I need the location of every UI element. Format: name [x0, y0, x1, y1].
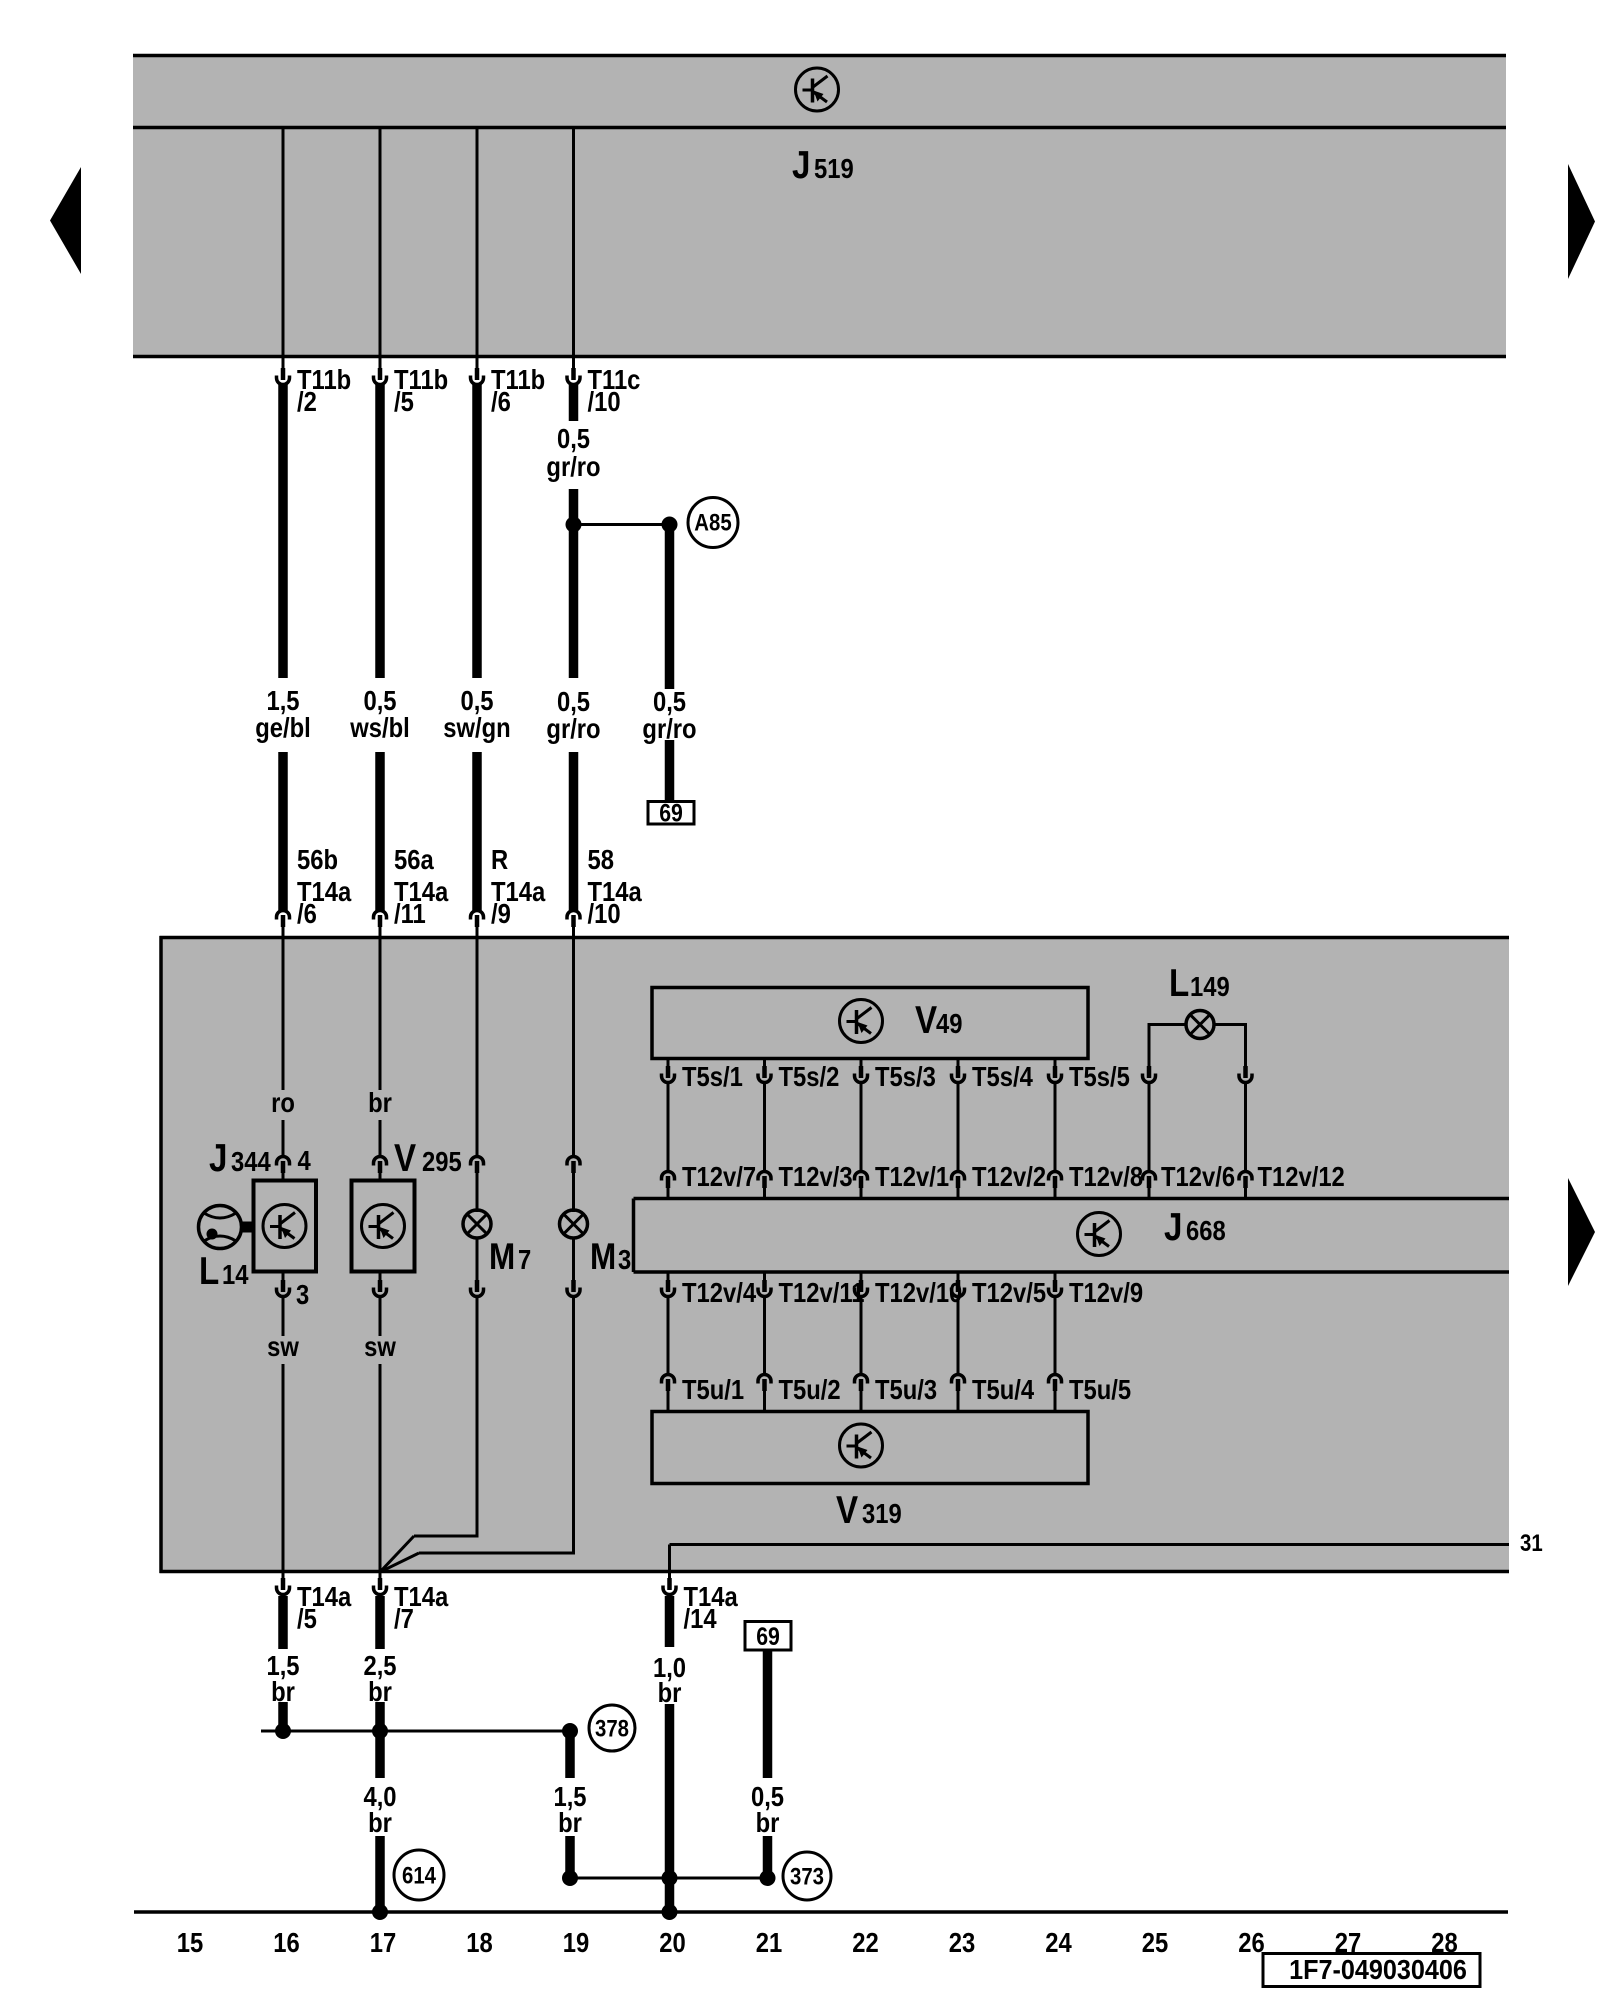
svg-text:L: L [199, 1248, 219, 1292]
svg-text:/14: /14 [684, 1602, 718, 1634]
svg-text:16: 16 [273, 1926, 299, 1958]
svg-text:br: br [368, 1675, 392, 1707]
svg-text:58: 58 [588, 843, 614, 875]
svg-text:J: J [1164, 1204, 1182, 1248]
svg-text:V: V [394, 1135, 416, 1179]
svg-text:T5s/2: T5s/2 [779, 1060, 840, 1092]
svg-text:R: R [491, 843, 508, 875]
svg-text:22: 22 [852, 1926, 878, 1958]
svg-text:T12v/5: T12v/5 [972, 1276, 1046, 1308]
svg-text:T5u/3: T5u/3 [875, 1373, 937, 1405]
svg-text:7: 7 [518, 1243, 531, 1275]
svg-text:V: V [836, 1487, 858, 1531]
svg-text:15: 15 [177, 1926, 203, 1958]
svg-text:20: 20 [659, 1926, 685, 1958]
svg-text:25: 25 [1142, 1926, 1168, 1958]
svg-text:295: 295 [422, 1145, 462, 1177]
svg-text:/10: /10 [588, 385, 621, 417]
svg-text:sw: sw [267, 1330, 299, 1362]
svg-text:56b: 56b [297, 843, 338, 875]
svg-text:23: 23 [949, 1926, 975, 1958]
svg-text:T12v/6: T12v/6 [1161, 1160, 1235, 1192]
svg-text:T5u/5: T5u/5 [1069, 1373, 1131, 1405]
svg-text:3: 3 [618, 1243, 631, 1275]
svg-text:ws/bl: ws/bl [349, 711, 409, 743]
svg-text:J: J [209, 1135, 227, 1179]
svg-text:19: 19 [563, 1926, 589, 1958]
svg-text:M: M [489, 1237, 515, 1278]
svg-text:V: V [915, 997, 937, 1041]
svg-text:519: 519 [814, 152, 854, 184]
svg-text:373: 373 [790, 1863, 824, 1890]
svg-text:/7: /7 [394, 1602, 414, 1634]
svg-text:21: 21 [756, 1926, 782, 1958]
svg-text:T12v/12: T12v/12 [1258, 1160, 1345, 1192]
svg-text:668: 668 [1186, 1214, 1226, 1246]
svg-text:26: 26 [1238, 1926, 1264, 1958]
svg-text:T12v/4: T12v/4 [682, 1276, 757, 1308]
svg-text:T5s/5: T5s/5 [1069, 1060, 1130, 1092]
svg-text:br: br [368, 1806, 392, 1838]
svg-text:ge/bl: ge/bl [255, 711, 311, 743]
svg-text:/5: /5 [297, 1602, 317, 1634]
svg-text:T12v/10: T12v/10 [875, 1276, 962, 1308]
svg-text:T12v/8: T12v/8 [1069, 1160, 1143, 1192]
svg-text:378: 378 [595, 1715, 629, 1742]
svg-text:1F7-049030406: 1F7-049030406 [1289, 1954, 1467, 1986]
svg-text:br: br [558, 1806, 582, 1838]
svg-text:/5: /5 [394, 385, 414, 417]
svg-text:T12v/11: T12v/11 [779, 1276, 865, 1308]
svg-text:gr/ro: gr/ro [642, 712, 696, 744]
svg-text:T12v/1: T12v/1 [875, 1160, 949, 1192]
svg-text:56a: 56a [394, 843, 434, 875]
svg-text:18: 18 [466, 1926, 492, 1958]
svg-text:T5s/3: T5s/3 [875, 1060, 936, 1092]
svg-text:49: 49 [936, 1007, 962, 1039]
svg-text:3: 3 [296, 1278, 309, 1310]
svg-text:24: 24 [1045, 1926, 1072, 1958]
svg-text:69: 69 [756, 1622, 780, 1650]
svg-text:/2: /2 [297, 385, 317, 417]
svg-text:T5u/1: T5u/1 [682, 1373, 744, 1405]
svg-text:69: 69 [659, 799, 683, 827]
svg-text:T12v/9: T12v/9 [1069, 1276, 1143, 1308]
svg-text:br: br [756, 1806, 780, 1838]
svg-text:/9: /9 [491, 897, 511, 929]
svg-text:L: L [1169, 960, 1189, 1004]
svg-text:sw: sw [364, 1330, 396, 1362]
svg-text:gr/ro: gr/ro [546, 450, 600, 482]
svg-text:149: 149 [1190, 970, 1230, 1002]
svg-text:319: 319 [862, 1497, 902, 1529]
svg-text:17: 17 [370, 1926, 396, 1958]
svg-text:T5u/4: T5u/4 [972, 1373, 1035, 1405]
svg-text:T12v/2: T12v/2 [972, 1160, 1046, 1192]
svg-text:T5s/4: T5s/4 [972, 1060, 1033, 1092]
svg-text:344: 344 [231, 1145, 271, 1177]
svg-text:14: 14 [222, 1258, 249, 1290]
svg-text:br: br [658, 1676, 682, 1708]
svg-text:/10: /10 [588, 897, 621, 929]
svg-text:T5s/1: T5s/1 [682, 1060, 743, 1092]
svg-text:gr/ro: gr/ro [546, 712, 600, 744]
svg-text:M: M [590, 1237, 616, 1278]
svg-text:/11: /11 [394, 897, 426, 929]
svg-text:T12v/7: T12v/7 [682, 1160, 756, 1192]
svg-text:A85: A85 [694, 509, 731, 536]
svg-text:ro: ro [271, 1086, 295, 1118]
svg-text:/6: /6 [491, 385, 511, 417]
svg-text:br: br [368, 1086, 392, 1118]
svg-text:sw/gn: sw/gn [443, 711, 510, 743]
svg-text:T5u/2: T5u/2 [779, 1373, 841, 1405]
svg-text:br: br [271, 1675, 295, 1707]
svg-text:4: 4 [298, 1144, 312, 1176]
svg-text:614: 614 [402, 1862, 437, 1889]
svg-text:J: J [792, 142, 810, 186]
svg-text:/6: /6 [297, 897, 317, 929]
svg-text:T12v/3: T12v/3 [779, 1160, 853, 1192]
svg-text:31: 31 [1520, 1529, 1543, 1556]
